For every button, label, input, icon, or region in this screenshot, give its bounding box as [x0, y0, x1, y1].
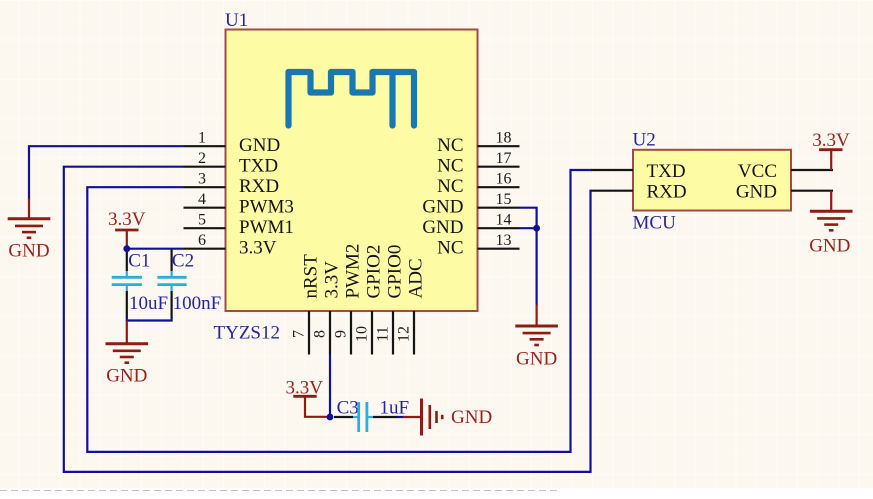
U1 pin 4 PWM3 (left): [184, 191, 294, 217]
svg-text:GND: GND: [516, 349, 557, 370]
IC U2 body: [633, 150, 791, 211]
U2 value label MCU: [633, 213, 677, 234]
svg-text:GPIO0: GPIO0: [385, 245, 406, 299]
svg-text:10uF: 10uF: [129, 293, 168, 314]
U1 pin 5 PWM1 (left): [184, 212, 294, 238]
junction at pin14: [533, 225, 540, 232]
svg-text:GND: GND: [239, 135, 280, 156]
svg-text:9: 9: [333, 330, 350, 338]
svg-text:NC: NC: [437, 237, 463, 258]
svg-text:17: 17: [496, 150, 512, 167]
U2 pin GND: [736, 182, 833, 203]
capacitor C3: [334, 402, 398, 432]
U1 designator label: [225, 10, 248, 31]
svg-text:NC: NC: [437, 135, 463, 156]
U1 pin 2 TXD (left): [184, 150, 279, 176]
svg-text:14: 14: [496, 212, 512, 229]
svg-text:1: 1: [198, 130, 206, 147]
U1 pin 1 GND (left): [184, 130, 281, 156]
svg-text:C3: C3: [337, 398, 359, 419]
svg-text:16: 16: [496, 171, 512, 188]
capacitor C3 designator: [337, 398, 359, 419]
ground symbol at U2 GND: [809, 191, 852, 257]
svg-text:C2: C2: [172, 250, 194, 271]
U1 antenna logo: [289, 72, 415, 126]
svg-text:TXD: TXD: [647, 161, 686, 182]
svg-text:MCU: MCU: [633, 213, 677, 234]
wire U1 TXD to U2 RXD: [64, 167, 592, 472]
svg-text:GND: GND: [106, 366, 147, 387]
svg-text:U1: U1: [225, 10, 248, 31]
capacitor C1: [112, 249, 142, 318]
svg-text:3.3V: 3.3V: [239, 237, 277, 258]
wire U1 RXD to U2 TXD: [87, 170, 592, 452]
svg-text:3: 3: [198, 171, 206, 188]
ground symbol below C1 C2: [106, 321, 149, 387]
U1 pin 9 PWM2 (bottom): [333, 244, 364, 355]
capacitor C2 value 100nF: [173, 293, 222, 314]
wire C3 to ground: [397, 416, 404, 418]
svg-text:PWM1: PWM1: [239, 217, 294, 238]
capacitor C1 designator: [128, 250, 150, 271]
ground symbol below U1 right: [515, 305, 558, 370]
svg-text:PWM2: PWM2: [343, 244, 364, 299]
U1 pin 7 nRST (bottom): [291, 254, 322, 355]
svg-text:11: 11: [375, 326, 392, 341]
svg-text:6: 6: [198, 232, 206, 249]
svg-text:15: 15: [496, 191, 512, 208]
U1 pin 10 GPIO2 (bottom): [354, 245, 385, 355]
svg-text:GND: GND: [422, 196, 463, 217]
svg-text:TYZS12: TYZS12: [214, 323, 281, 344]
svg-text:TXD: TXD: [239, 155, 278, 176]
svg-text:RXD: RXD: [647, 182, 687, 203]
power 3.3V at C3: [286, 378, 327, 417]
svg-text:4: 4: [198, 191, 206, 208]
svg-text:NC: NC: [437, 176, 463, 197]
svg-text:GND: GND: [422, 217, 463, 238]
U1 pin 17 NC (right): [437, 150, 519, 176]
U1 pin 16 NC (right): [437, 171, 519, 197]
svg-text:VCC: VCC: [738, 161, 777, 182]
ground symbol at C3 (rotated): [403, 399, 492, 436]
svg-text:12: 12: [396, 326, 413, 342]
svg-text:GND: GND: [736, 182, 777, 203]
svg-text:nRST: nRST: [301, 254, 322, 299]
U1 pin 6 3.3V (left): [184, 232, 277, 258]
U1 pin 13 NC (right): [437, 232, 519, 258]
svg-text:1uF: 1uF: [380, 398, 410, 419]
svg-text:C1: C1: [128, 250, 150, 271]
wire U1 pin1 GND net: [29, 146, 184, 199]
svg-text:100nF: 100nF: [173, 293, 222, 314]
svg-text:GND: GND: [451, 407, 492, 428]
U1 pin 8 3.3V (bottom): [312, 261, 343, 355]
svg-text:13: 13: [496, 232, 512, 249]
svg-text:3.3V: 3.3V: [322, 261, 343, 299]
svg-text:7: 7: [291, 330, 308, 338]
svg-text:GND: GND: [8, 240, 49, 261]
svg-text:10: 10: [354, 326, 371, 342]
svg-text:5: 5: [198, 212, 206, 229]
U2 pin VCC: [738, 161, 833, 182]
U1 pin 14 GND (right): [422, 212, 519, 238]
wire U1 pin8 to C3 node: [329, 355, 331, 418]
wire U1 pin15 pin14 GND net: [520, 208, 537, 306]
svg-text:3.3V: 3.3V: [108, 209, 146, 230]
IC U1 body: [226, 30, 478, 312]
svg-text:2: 2: [198, 150, 206, 167]
svg-text:NC: NC: [437, 155, 463, 176]
svg-text:GND: GND: [809, 235, 850, 256]
capacitor C2 designator: [172, 250, 194, 271]
bottom white strip: [0, 488, 873, 494]
U1 pin 3 RXD (left): [184, 171, 280, 197]
wire 3.3V node to U1 pin 3.3V: [127, 248, 184, 250]
U2 pin RXD: [591, 182, 687, 203]
U2 designator label: [633, 130, 656, 151]
U2 pin TXD: [591, 161, 686, 182]
U1 pin 18 NC (right): [437, 130, 519, 156]
U1 pin 11 GPIO0 (bottom): [375, 245, 406, 355]
svg-text:ADC: ADC: [406, 258, 427, 298]
junction at C3 node: [327, 414, 334, 421]
svg-text:RXD: RXD: [239, 176, 279, 197]
capacitor C2: [157, 249, 186, 318]
junction at C1 top: [123, 245, 130, 252]
ground symbol at U1 pin1: [8, 199, 51, 262]
svg-text:18: 18: [496, 130, 512, 147]
capacitor C1 value 10uF: [129, 293, 168, 314]
U1 value label TYZS12: [214, 323, 281, 344]
svg-text:U2: U2: [633, 130, 656, 151]
power 3.3V at C1: [108, 209, 146, 249]
svg-text:GPIO2: GPIO2: [364, 245, 385, 299]
svg-text:3.3V: 3.3V: [812, 130, 850, 151]
power 3.3V at U2 VCC: [812, 130, 850, 170]
U1 pin 12 ADC (bottom): [396, 258, 427, 354]
svg-text:PWM3: PWM3: [239, 196, 294, 217]
svg-text:8: 8: [312, 330, 329, 338]
U1 pin 15 GND (right): [422, 191, 519, 217]
wire C1 C2 bottoms: [127, 317, 172, 321]
capacitor C3 value 1uF: [380, 398, 410, 419]
